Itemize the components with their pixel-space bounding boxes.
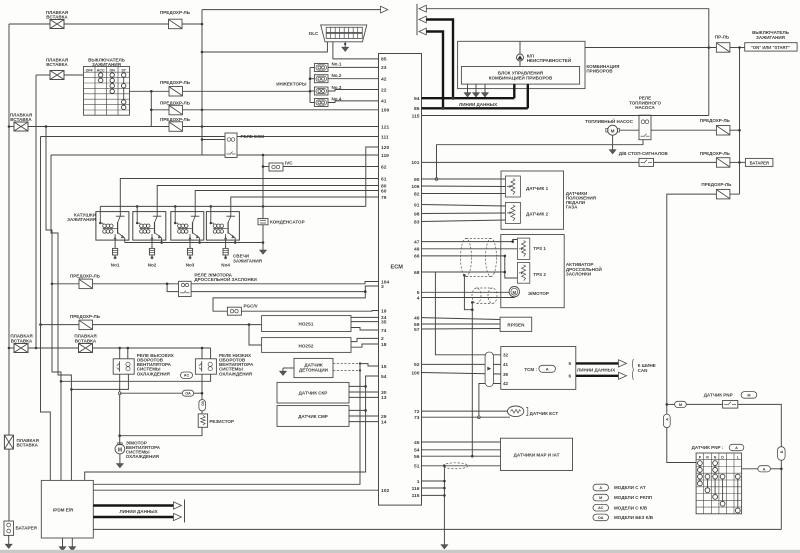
legend model tags <box>593 484 654 520</box>
knock sensor B1 box <box>294 358 333 377</box>
svg-text:РЕЛЕ ЕСМ: РЕЛЕ ЕСМ <box>241 134 265 139</box>
svg-text:35: 35 <box>381 319 387 325</box>
svg-text:ДАТЧИК 1: ДАТЧИК 1 <box>526 186 549 191</box>
svg-text:ПРИБОРОВ: ПРИБОРОВ <box>586 69 613 74</box>
wire TCM pin32 row from vertical x435.4 <box>435 272 500 355</box>
svg-text:85: 85 <box>381 57 387 63</box>
svg-text:ПРЕДОХР-ЛЬ: ПРЕДОХР-ЛЬ <box>160 117 191 122</box>
battery G1 (bottom left) <box>4 521 37 535</box>
svg-text:No2: No2 <box>148 262 157 267</box>
fusible link FL5 with label <box>74 334 97 353</box>
svg-text:M: M <box>611 128 615 133</box>
fuel pump ground <box>609 135 616 154</box>
pedal sensor 2 <box>505 202 548 223</box>
injector No.1 <box>314 62 341 72</box>
svg-text:No.1: No.1 <box>332 62 342 67</box>
MAP IAT sensors box <box>501 438 573 470</box>
wire coil T2 trigger from ECM <box>157 186 378 212</box>
svg-text:HO2S1: HO2S1 <box>299 322 314 327</box>
fuse F2 row with label <box>160 80 191 96</box>
IVC condenser box <box>269 161 293 172</box>
svg-text:ПРЕДОХР-ЛЬ: ПРЕДОХР-ЛЬ <box>160 10 191 15</box>
svg-text:22: 22 <box>381 87 387 93</box>
wire resistor branch x202 <box>201 359 204 400</box>
svg-text:ЗАЖИГАНИЯ: ЗАЖИГАНИЯ <box>67 217 96 222</box>
IPDM CAN line 1 (thick) with arrow <box>93 502 181 509</box>
ignition coil T1 <box>96 212 129 241</box>
ignition switch SW1 table <box>84 58 130 116</box>
shield drain wires <box>463 274 474 457</box>
OV capsule tag on resistor wire <box>199 400 206 411</box>
svg-text:14: 14 <box>381 419 387 425</box>
svg-text:119: 119 <box>381 153 389 159</box>
svg-text:ОХЛАЖДЕНИЯ: ОХЛАЖДЕНИЯ <box>219 371 252 376</box>
wire fuse F10 left down to PNP x667 <box>667 194 717 404</box>
wire coil T1 trigger from ECM <box>120 179 378 212</box>
svg-text:5: 5 <box>417 290 420 296</box>
svg-text:ВСТАВКА: ВСТАВКА <box>11 338 33 343</box>
wire coil T4 supply drop <box>210 205 213 212</box>
throttle motor M3 <box>509 287 549 297</box>
svg-text:TPS 2: TPS 2 <box>533 272 546 277</box>
svg-text:41: 41 <box>503 362 509 367</box>
wire coil T3 supply drop <box>174 205 177 212</box>
fuse F1 (top) with label <box>160 10 191 29</box>
svg-text:ПРЕДОХР-ЛЬ: ПРЕДОХР-ЛЬ <box>70 314 101 319</box>
svg-text:ACC: ACC <box>97 68 105 72</box>
svg-text:46: 46 <box>414 315 420 321</box>
OA model oval tag on wire <box>120 390 202 396</box>
svg-text:3: 3 <box>381 284 384 290</box>
svg-text:А: А <box>599 486 602 490</box>
wires CMP to ECM pins 29 14 and shield <box>349 410 379 421</box>
wire knock signal shielded to ECM pin 15 <box>333 362 379 366</box>
stop lamp switch SW2 with label <box>619 151 669 166</box>
svg-text:КОМБИНАЦИЕЙ ПРИБОРОВ: КОМБИНАЦИЕЙ ПРИБОРОВ <box>489 74 553 81</box>
wire capacitor to ground <box>260 225 267 254</box>
wire vertical x46 (IPDM feed 2) <box>46 127 62 481</box>
fusible link FL4 with label <box>10 334 33 353</box>
svg-text:ДРОССЕЛЬНОЙ ЗАСЛОНКИ: ДРОССЕЛЬНОЙ ЗАСЛОНКИ <box>194 275 256 282</box>
svg-text:МОДЕЛИ С К/В: МОДЕЛИ С К/В <box>614 505 648 510</box>
svg-text:ВСТАВКА: ВСТАВКА <box>10 117 32 122</box>
CAN bus thick wire from arrow3 <box>426 32 443 109</box>
wire relay ECM coil stub y139.5 <box>202 139 225 141</box>
svg-text:ДЕТОНАЦИИ: ДЕТОНАЦИИ <box>299 367 328 372</box>
cluster ground 2 <box>473 84 480 97</box>
svg-text:ОА: ОА <box>185 392 191 396</box>
A model oval near table <box>742 466 782 472</box>
svg-text:M: M <box>118 447 122 453</box>
svg-text:66: 66 <box>414 254 420 260</box>
svg-text:ВСТАВКА: ВСТАВКА <box>75 338 97 343</box>
fusible link FL1 (top left) with label <box>46 10 69 29</box>
sensor ground drop x444.4 with ground <box>422 466 448 549</box>
svg-text:ДАТЧИК PNP :: ДАТЧИК PNP : <box>692 445 724 450</box>
injector No.3 <box>314 85 341 95</box>
wires TPS rows 47 49 66 68 <box>422 240 518 279</box>
svg-text:45: 45 <box>414 440 420 446</box>
fusible link FL2 with label <box>46 58 69 80</box>
wire relay K2 to ECM pin 104 <box>191 282 378 284</box>
TPS 2 sensor <box>517 263 546 284</box>
svg-text:102: 102 <box>381 488 389 494</box>
svg-text:ВСТАВКА: ВСТАВКА <box>17 443 39 448</box>
page connector arrow A1 (right-pointing) <box>381 6 388 13</box>
svg-text:НАСОСА: НАСОСА <box>635 105 655 110</box>
wire shield drain x360 to IPDM <box>93 364 360 485</box>
resistor R1 with label <box>198 411 234 427</box>
svg-text:ОХЛАЖДЕНИЯ: ОХЛАЖДЕНИЯ <box>126 454 159 459</box>
wire DLC K-line to ECM pin 85 <box>333 42 379 59</box>
wire fuse F8 to battery rail <box>730 129 740 131</box>
svg-text:106: 106 <box>411 184 419 190</box>
svg-text:98: 98 <box>414 211 420 217</box>
B capsule tag right <box>778 447 786 461</box>
ECM left pin numbers and pin ticks <box>381 57 389 494</box>
wire K4 coil row y381.3 <box>61 374 211 381</box>
wire knock shield dashed <box>333 369 361 371</box>
wire left rail x9 battery feed <box>8 24 11 349</box>
wire ECM pin 101 row to stop switch <box>422 161 640 163</box>
MIL warning lamp <box>517 41 572 66</box>
svg-text:ДАТЧИКИ МАР И IАТ: ДАТЧИКИ МАР И IАТ <box>514 453 560 458</box>
IPDM ground 1 <box>59 538 66 551</box>
wire PNP M row y404.4 <box>666 403 782 447</box>
svg-text:42: 42 <box>503 381 509 386</box>
svg-text:47: 47 <box>414 239 420 245</box>
cooling fan high relay K3 <box>113 353 174 376</box>
CKP sensor box <box>277 382 349 403</box>
svg-text:92: 92 <box>414 362 420 368</box>
wire row y155 to ECM pin 119 <box>51 154 379 157</box>
TCM box <box>501 347 576 390</box>
throttle actuator outer box <box>501 235 602 308</box>
wire left rail2 x36 <box>35 75 38 349</box>
svg-text:57: 57 <box>414 327 420 333</box>
cooling fan motor M1 <box>115 440 161 459</box>
svg-text:ЛИНИИ ДАННЫХ: ЛИНИИ ДАННЫХ <box>459 102 497 107</box>
wire PNP A feed down to table <box>667 428 696 463</box>
svg-text:ПРЕДОХР-ЛЬ: ПРЕДОХР-ЛЬ <box>701 182 732 187</box>
svg-text:IPDM E/R: IPDM E/R <box>53 508 74 513</box>
PNP switch sensor (M/T) box <box>704 392 757 409</box>
ECT sensor B2 <box>507 406 558 417</box>
svg-text:62: 62 <box>381 164 387 170</box>
svg-text:51: 51 <box>414 464 420 470</box>
svg-text:ПРЕДОХР-ЛЬ: ПРЕДОХР-ЛЬ <box>70 273 101 278</box>
wire fuse F10 right to battery rail <box>730 193 740 195</box>
svg-text:56: 56 <box>414 454 420 460</box>
TCM data lines label + K CAN bus label <box>577 359 656 380</box>
wire ECT rows 72 73 <box>422 411 511 417</box>
wire fan supply row y348 <box>9 347 211 350</box>
svg-text:ПРЕДОХР-ЛЬ: ПРЕДОХР-ЛЬ <box>700 151 731 156</box>
wire vertical x51 (IPDM feed 3) <box>51 155 73 480</box>
svg-text:116: 116 <box>412 486 420 492</box>
TPS 1 sensor <box>517 238 546 259</box>
svg-text:115: 115 <box>412 113 420 119</box>
svg-text:МОДЕЛИ С АТ: МОДЕЛИ С АТ <box>614 485 646 490</box>
svg-text:100: 100 <box>411 370 419 376</box>
svg-text:ПРЕДОХР-ЛЬ: ПРЕДОХР-ЛЬ <box>160 80 191 85</box>
svg-text:РЕЗИСТОР: РЕЗИСТОР <box>209 419 234 424</box>
svg-text:МОДЕЛИ С РКПП: МОДЕЛИ С РКПП <box>614 495 652 500</box>
HO2S2 sensor box <box>262 338 351 353</box>
wire TCM pin39 row from ECM 100 <box>422 373 501 375</box>
CAN thick row ECM 94 to cluster <box>422 84 515 100</box>
wire row y147 ECM pin 120 to coil bus drop <box>366 147 379 206</box>
svg-text:90: 90 <box>414 177 420 183</box>
wire TCM pin41 row from ECM 92 <box>422 363 501 365</box>
wires MAP IAT rows 45 54 56 51 <box>422 442 501 467</box>
svg-text:2: 2 <box>381 336 384 342</box>
svg-text:1: 1 <box>417 479 420 485</box>
svg-text:ДАТЧИК СКР: ДАТЧИК СКР <box>299 391 328 396</box>
svg-text:86: 86 <box>414 106 420 112</box>
fuse F5 with label <box>70 273 101 288</box>
wire coil T3 trigger from ECM <box>195 191 378 212</box>
svg-text:ГАЗА: ГАЗА <box>566 205 578 210</box>
svg-text:А: А <box>763 467 766 471</box>
svg-text:5: 5 <box>568 361 571 366</box>
svg-text:No.2: No.2 <box>332 73 342 78</box>
svg-text:БАТАРЕЯ: БАТАРЕЯ <box>16 526 37 531</box>
svg-text:КОНДЕНСАТОР: КОНДЕНСАТОР <box>270 219 305 224</box>
svg-text:OFF: OFF <box>86 68 94 72</box>
svg-text:IVC: IVC <box>285 161 293 166</box>
svg-text:4: 4 <box>417 295 420 301</box>
spark plug P3 <box>186 240 195 267</box>
svg-text:ТОПЛИВНЫЙ НАСОС: ТОПЛИВНЫЙ НАСОС <box>585 117 634 124</box>
wire injector No.2 to ECM <box>328 78 379 80</box>
instrument cluster outer box <box>458 41 620 88</box>
shield dashed around TPS wires <box>461 239 497 277</box>
wire PGC/V to ECM pin 19 <box>241 310 378 313</box>
A capsule tag on vertical wire <box>663 404 670 427</box>
svg-text:ПР-ЛЬ: ПР-ЛЬ <box>715 35 730 40</box>
PNP A table <box>696 453 742 514</box>
svg-text:TPS 1: TPS 1 <box>533 246 546 251</box>
svg-text:ЛИНИИ ДАННЫХ: ЛИНИИ ДАННЫХ <box>577 367 615 372</box>
svg-text:ТСМ :: ТСМ : <box>524 367 537 372</box>
wire ECM pin 115 row to fuel pump relay <box>422 115 709 117</box>
wire top row y9.6 to page arrow <box>202 9 381 11</box>
svg-text:49: 49 <box>414 247 420 253</box>
wires RP/SEN rows 46 69 57 <box>422 318 501 329</box>
DLC connector J1 <box>309 25 367 42</box>
wire vertical x263 relay to capacitor/ground <box>262 155 265 219</box>
svg-text:АС: АС <box>598 506 604 510</box>
wire coil T2 emitter to bottom bus <box>160 240 163 244</box>
svg-text:МОДЕЛИ БЕЗ К/В: МОДЕЛИ БЕЗ К/В <box>614 515 654 520</box>
svg-text:115: 115 <box>412 493 420 499</box>
svg-text:82: 82 <box>414 191 420 197</box>
svg-text:D: D <box>721 455 724 459</box>
wire injector No.4 left stub <box>310 102 314 104</box>
svg-text:39: 39 <box>503 372 509 377</box>
wire ignition out row y91.3 to injectors <box>130 90 311 93</box>
svg-text:Д/В СТОП-СИГНАЛОВ: Д/В СТОП-СИГНАЛОВ <box>619 151 669 156</box>
svg-text:121: 121 <box>381 124 389 130</box>
svg-text:ON: ON <box>110 68 116 72</box>
CMP sensor box <box>277 406 349 427</box>
CAN thick row ECM 86 to cluster <box>422 84 528 110</box>
wire row y136.5 to ECM pin 111 <box>41 136 379 138</box>
svg-text:ОV: ОV <box>201 400 205 406</box>
fusible link FL3 <box>10 112 33 131</box>
fuel pump motor M2 <box>606 125 620 135</box>
wire relay K2 switched out to ECM pin 3 and PGC/V <box>191 286 378 311</box>
svg-text:ДАТЧИК СМР: ДАТЧИК СМР <box>298 414 328 419</box>
wire injector No.3 left stub <box>310 90 314 92</box>
svg-text:Б: Б <box>780 450 784 453</box>
svg-text:ПРЕДОХР-ЛЬ: ПРЕДОХР-ЛЬ <box>160 100 191 105</box>
wire ECM pin 54 sensor ground to shield rail x365.6 <box>85 376 379 480</box>
wire coil secondary bus y242.5 <box>125 242 263 244</box>
accelerator pedal sensors outer box <box>501 171 596 229</box>
wire supply vertical x202 <box>201 10 204 155</box>
ignition coil T2 <box>133 212 166 241</box>
svg-text:61: 61 <box>381 176 387 182</box>
shield dashed around motor wires <box>472 288 497 303</box>
svg-text:No1: No1 <box>111 262 120 267</box>
wire battery rail x739.5 <box>738 48 741 195</box>
ignition coil T4 <box>206 212 239 241</box>
svg-text:АС: АС <box>184 374 190 378</box>
svg-text:М: М <box>599 496 602 500</box>
battery ground stub <box>5 535 12 548</box>
cluster ground 1 <box>464 84 471 97</box>
svg-text:ДАТЧИК 2: ДАТЧИК 2 <box>526 212 549 217</box>
svg-text:41: 41 <box>381 99 387 105</box>
svg-text:А: А <box>735 446 738 450</box>
wire injector No.4 to ECM <box>328 101 379 103</box>
svg-text:91: 91 <box>414 202 420 208</box>
wire row y324.6 HO2S heater feed <box>39 323 261 326</box>
capacitor C1 <box>258 219 305 225</box>
svg-text:ЗАСЛОНКИ: ЗАСЛОНКИ <box>566 271 591 276</box>
wire row y283.8 fuse to throttle relay <box>51 283 179 292</box>
svg-text:А: А <box>665 418 669 421</box>
shield dashed on row 51 <box>443 463 468 469</box>
wire injector No.1 to ECM <box>328 66 379 68</box>
battery box right <box>745 158 773 166</box>
wire resistor bottom row y435.7 <box>120 427 202 435</box>
svg-text:М: М <box>679 403 682 407</box>
CAN bus thick wire from arrow2 <box>426 20 453 99</box>
svg-text:N: N <box>714 455 717 459</box>
svg-text:68: 68 <box>414 270 420 276</box>
ignition coil T3 <box>171 212 204 241</box>
wire injector No.1 left stub <box>310 67 314 69</box>
svg-text:БАТАРЕЯ: БАТАРЕЯ <box>750 160 769 165</box>
svg-text:15: 15 <box>381 364 387 370</box>
svg-text:13: 13 <box>381 395 387 401</box>
fuse F4 row with label <box>160 117 191 132</box>
ECM U1 main box <box>379 54 422 506</box>
wire K3 coil row y389.4 <box>71 374 128 389</box>
wire DLC supply branch y52 <box>202 42 327 52</box>
HO2S1 sensor box <box>262 316 351 332</box>
fuel pump relay K5 with label <box>629 96 662 140</box>
svg-text:ИНЖЕКТОРЫ: ИНЖЕКТОРЫ <box>276 81 307 86</box>
RP/SEN box <box>500 317 532 331</box>
svg-text:54: 54 <box>381 374 387 380</box>
wire row y109.8 to ECM pin 109 <box>151 109 378 111</box>
svg-text:DLC: DLC <box>309 31 319 36</box>
svg-text:83: 83 <box>414 219 420 225</box>
svg-text:42: 42 <box>381 77 387 83</box>
svg-text:60: 60 <box>381 188 387 194</box>
IPDM CAN line 2 (thick) with arrow <box>93 513 181 520</box>
wire from B capsule to A oval junction and bottom bus <box>780 460 783 529</box>
ignition switch ON/START box <box>745 30 797 51</box>
CAN arrows terminator bar <box>184 500 186 523</box>
svg-text:32: 32 <box>503 353 509 358</box>
svg-text:111: 111 <box>381 134 389 140</box>
svg-text:"ON" ИЛИ "START": "ON" ИЛИ "START" <box>751 45 790 50</box>
fuse F10 with label <box>701 182 732 199</box>
wire ignition switch feed row y75 <box>36 74 84 76</box>
wire fan motor feed x120.3 <box>118 374 121 444</box>
svg-text:ПРЕДОХР-ЛЬ: ПРЕДОХР-ЛЬ <box>700 118 731 123</box>
svg-text:ВСТАВКА: ВСТАВКА <box>46 62 68 67</box>
svg-text:ДАТЧИК PNP: ДАТЧИК PNP <box>704 393 733 398</box>
wire HO2S2 heater drop x249 <box>249 325 262 345</box>
svg-text:R: R <box>706 455 709 459</box>
TCM shield capsule with arrow <box>485 352 493 387</box>
injector No.2 <box>314 73 341 83</box>
wire vertical x40.5 (IPDM feed 1) <box>41 137 51 481</box>
wire ignition row y47.5 <box>585 46 745 49</box>
svg-text:19: 19 <box>381 308 387 314</box>
wire left rail to battery <box>8 348 10 521</box>
wire coil T4 emitter to bottom bus <box>234 240 237 244</box>
fuse F7 PR-L with label <box>715 35 730 53</box>
PGC/V purge valve with label <box>227 303 257 315</box>
svg-text:No4: No4 <box>221 262 230 267</box>
wires CKP to ECM pins 30 13 and shield <box>349 386 379 397</box>
wire ECM pin 102 row to IPDM <box>93 489 378 491</box>
svg-text:72: 72 <box>414 409 420 415</box>
wire IVC row y166.5 to ECM pin 62 <box>263 166 379 168</box>
svg-text:6: 6 <box>568 373 571 378</box>
svg-text:ЗАЖИГАНИЯ: ЗАЖИГАНИЯ <box>233 258 262 263</box>
svg-text:94: 94 <box>414 96 420 102</box>
wires pedal sensor 1 rows 90 106 82 <box>422 179 506 194</box>
wire thin ignition feed arrow1 to x708.75 <box>426 9 710 116</box>
svg-text:Э/МОТОР: Э/МОТОР <box>528 291 549 296</box>
ignition coils group label <box>67 213 96 223</box>
wire TCM pin42 row <box>478 384 501 419</box>
scan border bottom band <box>0 550 800 553</box>
wire injector No.2 left stub <box>310 78 314 80</box>
fusible link FL6 (vertical) with label <box>4 435 38 449</box>
ECM right pin numbers <box>411 96 419 499</box>
AC model oval tag <box>181 372 193 378</box>
wire coil T4 trigger from ECM <box>231 197 379 212</box>
svg-text:А: А <box>546 366 549 371</box>
injector No.4 <box>314 97 341 107</box>
svg-text:120: 120 <box>381 145 389 151</box>
M model oval on wire <box>675 401 687 407</box>
wires relay K4 top pins <box>202 348 211 359</box>
cluster control unit inner box <box>461 67 579 85</box>
wire fuel pump to relay row y130.2 <box>619 129 716 131</box>
page connector arrows bar (left-pointing x3) <box>417 4 426 36</box>
svg-text:PGC/V: PGC/V <box>244 303 258 308</box>
